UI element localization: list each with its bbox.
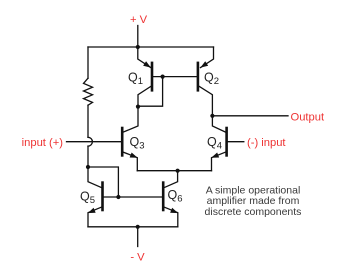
junction Q1 Q2 bases — [161, 75, 165, 79]
transistor Q6 base bar — [162, 181, 165, 211]
svg-text:discrete components: discrete components — [205, 206, 302, 218]
resistor R1 — [84, 78, 93, 105]
transistor Q5 base bar — [101, 181, 104, 211]
wire hop over input(+) — [88, 137, 92, 146]
svg-text:Q1: Q1 — [128, 71, 143, 88]
junction output node — [210, 114, 214, 118]
svg-text:Q5: Q5 — [80, 190, 95, 207]
junction +V rail — [136, 45, 140, 49]
wire Q5 diode connection to mirror base — [88, 167, 118, 196]
svg-text:Q2: Q2 — [204, 71, 219, 88]
transistor Q4 base bar — [225, 127, 228, 157]
wire node A to Q5 collector — [88, 167, 102, 188]
wire input (+) to Q3 base — [67, 141, 122, 143]
svg-text:+ V: + V — [130, 14, 148, 26]
wire top rail — [88, 46, 214, 48]
wire Q4 base to (-) input — [228, 141, 244, 143]
transistor Q3 emitter arrow (NPN) — [130, 153, 139, 161]
junction Q5 Q6 base node — [116, 195, 120, 199]
wire hop bottom to node A — [87, 146, 89, 167]
svg-text:Q4: Q4 — [207, 135, 222, 152]
wire Q2 collector down to Q4 collector — [198, 86, 226, 133]
wire left drop from rail to resistor — [87, 47, 89, 78]
wire +V stub — [137, 26, 139, 48]
wire bottom rail — [88, 226, 178, 228]
junction -V rail — [136, 225, 140, 229]
svg-text:Q3: Q3 — [130, 135, 145, 152]
wire Q1 Q2 base link — [153, 76, 196, 78]
junction tail node — [176, 169, 180, 173]
transistor Q3 base bar — [121, 127, 124, 157]
wire Q5 Q6 base link — [103, 196, 162, 198]
svg-text:Output: Output — [291, 111, 325, 123]
wire Q6 emitter to bottom rail — [163, 207, 178, 227]
svg-text:input (+): input (+) — [22, 137, 64, 149]
transistor Q2 emitter arrow (PNP) — [199, 61, 208, 70]
wire output line — [212, 115, 288, 117]
wire Q2 emitter from rail — [201, 47, 214, 68]
transistor Q1 base bar — [151, 62, 154, 92]
wire Q1 collector down to Q3 collector — [123, 86, 152, 133]
wire Q3 emitter to tail — [122, 152, 137, 171]
junction node A resistor to Q5 — [86, 165, 90, 169]
wire resistor bottom to hop — [87, 105, 89, 137]
transistor Q1 emitter arrow (PNP) — [143, 61, 152, 70]
wire Q1 diode connection base-to-collector — [139, 77, 163, 107]
svg-text:(-) input: (-) input — [247, 137, 286, 149]
transistor Q4 emitter arrow (NPN) — [210, 153, 219, 161]
transistor Q5 emitter arrow (NPN) — [87, 208, 96, 216]
svg-text:- V: - V — [130, 252, 145, 264]
transistor Q6 emitter arrow (NPN) — [170, 208, 179, 216]
junction Q1 collector node — [136, 105, 140, 109]
wire Q1 emitter from rail — [138, 47, 151, 68]
wire -V stub — [137, 227, 139, 247]
svg-text:Q6: Q6 — [168, 188, 183, 205]
wire Q4 emitter to tail — [212, 152, 227, 171]
wire Q5 emitter to bottom rail — [88, 207, 103, 227]
wire tail rail — [137, 170, 211, 172]
transistor Q2 base bar — [197, 62, 200, 92]
wire Q6 collector to tail node — [164, 171, 178, 188]
